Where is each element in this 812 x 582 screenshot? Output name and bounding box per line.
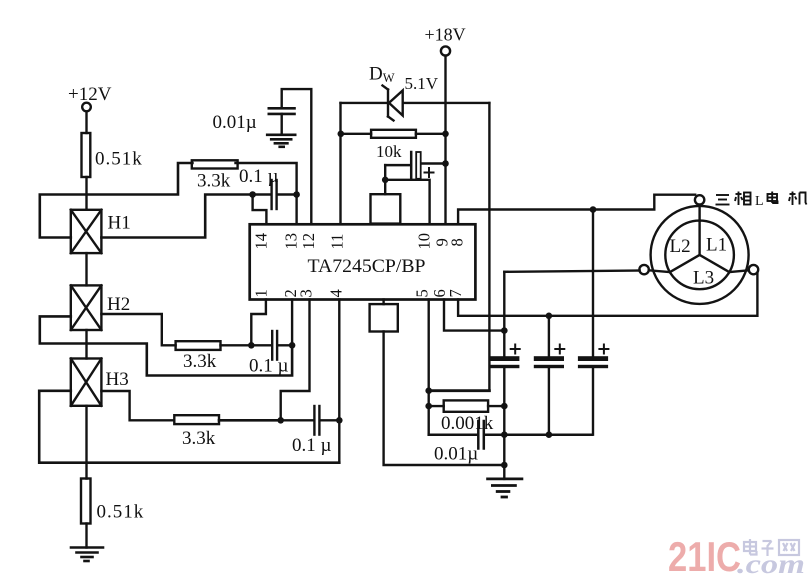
svg-text:8: 8: [448, 238, 467, 246]
wire pin11 vertical: [339, 103, 341, 224]
wire H1 to H2: [85, 253, 87, 285]
node C5 right dot: [442, 160, 449, 167]
motor spokes: [670, 221, 729, 273]
motor M1 inner circle: [665, 221, 734, 290]
op-amp U1 TA7245CP/BP IC body: [250, 224, 476, 299]
wire H2 to H3: [85, 330, 87, 359]
glyph JI: [789, 192, 807, 206]
node reference dot: [382, 177, 389, 184]
diode Dw zener 5.1V: [383, 86, 403, 121]
wire box stub: [382, 300, 384, 305]
C9 plus: [599, 345, 608, 354]
wire 3.3k to pin13 node: [236, 163, 297, 195]
resistor R2 0.51k body: [81, 479, 91, 524]
wire ground rail: [503, 435, 505, 479]
glyph SAN: [716, 195, 730, 205]
resistor R6 10k body: [371, 130, 416, 138]
node +18V terminal: [441, 46, 450, 55]
svg-text:L3: L3: [693, 268, 714, 289]
wire: [85, 112, 87, 134]
capacitor C8 electrolytic: [534, 316, 564, 435]
node pin6 dots: [425, 387, 432, 394]
svg-text:L: L: [755, 194, 764, 209]
wire C4 top to pin12: [282, 89, 312, 224]
wire zener loop top left: [341, 102, 387, 104]
capacitor C9 electrolytic: [578, 210, 608, 435]
svg-text:.com: .com: [737, 549, 805, 579]
svg-text:+12V: +12V: [68, 84, 112, 105]
svg-text:4: 4: [327, 289, 346, 297]
svg-text:13: 13: [282, 233, 301, 250]
motor terminal left: [639, 265, 648, 274]
C8 plus: [555, 345, 564, 354]
wire V504 phase to caps: [503, 272, 505, 356]
capacitor C1 0.1u: [253, 180, 297, 209]
svg-text:10: 10: [415, 233, 434, 250]
svg-text:1: 1: [252, 289, 271, 297]
wire pin3 jog: [281, 300, 310, 421]
component box above IC: [371, 194, 401, 223]
svg-text:0.1 µ: 0.1 µ: [249, 356, 289, 377]
wire 10k right lead: [416, 133, 446, 135]
svg-text:3.3k: 3.3k: [197, 171, 231, 192]
resistor R4 3.3k body: [176, 341, 221, 350]
wire 0.001k right lead: [488, 405, 504, 407]
svg-text:0.51k: 0.51k: [95, 149, 143, 170]
resistor R7 0.001k body: [444, 400, 488, 411]
wire H3 left loop: [39, 391, 339, 463]
svg-text:L1: L1: [706, 235, 727, 256]
hall sensor H1: [71, 210, 102, 253]
node C dot: [248, 342, 255, 349]
node B dot: [293, 191, 300, 198]
node 10k left dot: [338, 131, 345, 138]
component box below IC: [370, 304, 398, 331]
svg-text:11: 11: [328, 234, 347, 250]
svg-text:3.3k: 3.3k: [182, 428, 216, 449]
capacitor C2 0.1u: [251, 331, 292, 360]
capacitor C4 0.01u (top-left decoupling): [269, 108, 295, 114]
watermark dianziwang (CJK strokes): [744, 539, 799, 556]
wire: [85, 177, 87, 210]
svg-text:3.3k: 3.3k: [183, 351, 217, 372]
svg-text:7: 7: [446, 289, 465, 297]
capacitor C7 electrolytic: [489, 356, 519, 435]
C5 plus sign: [425, 168, 434, 177]
wire C4 bottom to ground: [281, 114, 283, 134]
svg-text:0.1 µ: 0.1 µ: [292, 435, 332, 456]
svg-text:12: 12: [299, 233, 318, 250]
wire R2 to ground: [85, 524, 87, 548]
svg-text:L2: L2: [670, 236, 691, 257]
capacitor C6 0.01u bottom: [429, 421, 592, 449]
wire +18V rail to pin9: [444, 56, 446, 224]
svg-text:21IC: 21IC: [668, 533, 741, 580]
wire cap node to pin14: [253, 195, 267, 225]
wire V490 to pin6 node: [429, 389, 490, 392]
wire pin4 node down to rail: [338, 420, 340, 462]
node C8 top dot: [546, 313, 553, 320]
wire 0.001k left lead: [429, 405, 444, 407]
ground: [267, 135, 295, 147]
node F dot: [336, 417, 343, 424]
wire 10k left lead: [341, 133, 372, 135]
svg-text:10k: 10k: [376, 142, 402, 161]
hall sensor H3: [71, 359, 102, 406]
wire H3 to R2: [85, 406, 87, 479]
glyph XIANG: [735, 192, 751, 206]
wire pin7 to motor right terminal: [458, 273, 757, 316]
wire 3.3k to pin1 node: [221, 344, 252, 346]
ground: [488, 479, 522, 497]
motor terminal top: [695, 195, 704, 204]
wire pin1 jog: [251, 300, 266, 346]
wire V490 right drop: [488, 103, 490, 391]
svg-text:+18V: +18V: [425, 25, 466, 45]
wire zener to V490: [403, 102, 490, 104]
svg-text:H2: H2: [107, 294, 130, 315]
wire box to ground rail: [384, 332, 505, 466]
wire H2 left loop: [40, 316, 292, 375]
capacitor C5 electrolytic by 10k: [385, 152, 445, 179]
svg-text:H1: H1: [108, 213, 131, 234]
svg-text:H3: H3: [106, 369, 129, 390]
wire pin10: [385, 180, 429, 224]
svg-text:0.1 µ: 0.1 µ: [239, 166, 279, 187]
svg-text:3: 3: [297, 289, 316, 297]
node E dot: [277, 417, 284, 424]
motor M1 outer circle: [651, 206, 749, 304]
svg-text:0.001k: 0.001k: [441, 413, 494, 434]
wire H3 right to 3.3k: [101, 391, 174, 420]
wire pin8 to motor top terminal: [458, 195, 695, 225]
motor terminal links: [649, 205, 749, 273]
svg-text:0.01µ: 0.01µ: [213, 112, 257, 133]
node C9 top dot: [590, 206, 597, 213]
wire H1 right to cap node: [101, 195, 250, 238]
wire pin2: [291, 300, 293, 346]
svg-text:TA7245CP/BP: TA7245CP/BP: [308, 256, 426, 277]
wire pin4: [338, 300, 340, 421]
label motor name (CJK drawn as strokes): [716, 192, 751, 206]
motor terminal right: [749, 265, 758, 274]
glyph DIAN: [768, 192, 778, 204]
wire H2 right to 3.3k: [101, 314, 175, 345]
wire H1 left loop: [40, 163, 193, 238]
svg-text:14: 14: [252, 233, 271, 250]
wire pin6 vertical: [428, 300, 430, 435]
wire 3.3k to pin3 node: [219, 419, 281, 422]
wire pin13: [295, 195, 297, 225]
svg-text:5: 5: [413, 289, 432, 297]
capacitor C3 0.1u: [281, 406, 340, 435]
svg-text:0.51k: 0.51k: [97, 502, 145, 523]
wire C5 left to reference box: [384, 165, 386, 194]
node +12V terminal: [82, 103, 91, 112]
node A dot: [249, 191, 256, 198]
wire pin5 to cap node: [444, 300, 504, 331]
svg-text:0.01µ: 0.01µ: [434, 444, 478, 465]
ground: [71, 548, 103, 562]
node 10k right dot: [442, 131, 449, 138]
wire phase L2 to motor left terminal: [504, 271, 639, 272]
svg-text:5.1V: 5.1V: [405, 74, 439, 93]
hall sensor H2: [71, 285, 102, 330]
resistor R3 3.3k body: [192, 160, 238, 168]
resistor R1 0.51k body: [82, 133, 91, 177]
C7 plus: [511, 345, 520, 354]
node D dot: [289, 342, 296, 349]
resistor R5 3.3k body: [174, 415, 219, 424]
